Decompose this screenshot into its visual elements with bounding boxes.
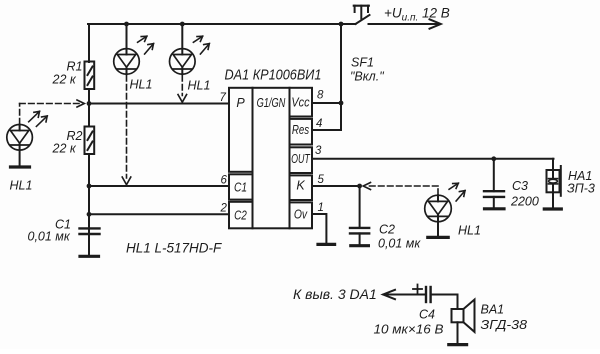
wire left rail down to R1 [88, 24, 90, 62]
svg-text:2: 2 [220, 203, 228, 215]
IC internal labels [234, 96, 311, 223]
svg-text:P: P [236, 96, 245, 110]
arrow to pin 3 DA1 (bottom note) [383, 290, 425, 299]
svg-text:0,01 мк: 0,01 мк [28, 230, 71, 244]
svg-text:R1: R1 [67, 60, 83, 74]
emission arrows HL1 A [138, 36, 154, 54]
emission arrows HL1 left [29, 111, 48, 126]
wire C4 to speaker [431, 295, 458, 310]
svg-text:G1/GN: G1/GN [257, 97, 286, 111]
pin field K [290, 175, 313, 200]
svg-text:Vcc: Vcc [291, 96, 309, 110]
pin field P [229, 88, 253, 172]
node pin3/C3 junction [491, 156, 496, 161]
wire node to R2 [88, 104, 90, 127]
resistor R2 [85, 127, 95, 155]
emission arrows HL1 B [193, 36, 209, 54]
ground BA1 [449, 343, 467, 346]
capacitor C1 [80, 228, 100, 234]
wire top supply rail [88, 23, 356, 25]
capacitor C2 [350, 186, 369, 245]
svg-text:SF1: SF1 [351, 56, 374, 70]
wire pin 1 [312, 214, 326, 243]
svg-text:4: 4 [316, 118, 322, 130]
svg-text:OUT: OUT [291, 153, 311, 167]
ground HL1 left [11, 165, 30, 168]
wire pin 7 [89, 103, 229, 105]
svg-text:C4: C4 [419, 308, 435, 322]
dashed optic arrow HL1 A down to pin6 wire [122, 76, 131, 185]
main field G1/GN [253, 88, 290, 229]
svg-text:+Uи.п. 12 В: +Uи.п. 12 В [384, 6, 450, 24]
wire pin 2 [89, 213, 229, 215]
wire SF1 vertical to pins 8,4 [340, 24, 342, 130]
wire pin 6 [89, 185, 229, 187]
switch SF1 push-button [354, 6, 370, 24]
ground pin 1 [318, 243, 335, 246]
svg-text:HL1: HL1 [458, 224, 481, 238]
svg-text:HL1: HL1 [188, 79, 211, 93]
LED HL1 A (x=126) [114, 24, 140, 74]
node pin2 junction [87, 212, 92, 217]
svg-text:2200: 2200 [510, 195, 539, 209]
value label R1 [10, 56, 595, 337]
svg-text:C2: C2 [234, 210, 247, 223]
op-amp U1: IC DA1 KR1006VI1 timer [229, 88, 312, 229]
dashed optic arrow from HL1 left to node [20, 100, 85, 124]
ground HL1 right [428, 236, 448, 239]
dashed optic arrow HL1 B down to pin7 wire [178, 76, 187, 103]
ground HA1 [544, 207, 561, 210]
wire C1 to ground [88, 234, 90, 255]
svg-text:5: 5 [318, 174, 325, 186]
svg-text:7: 7 [220, 92, 227, 104]
node pin6 junction [87, 184, 92, 189]
svg-text:BA1: BA1 [481, 303, 505, 317]
buzzer HA1 piezo [547, 159, 561, 208]
dashed optic arrow from HL1 right to pin5 node [363, 183, 438, 195]
svg-text:0,01 мк: 0,01 мк [378, 237, 421, 251]
svg-text:DA1 КР1006ВИ1: DA1 КР1006ВИ1 [225, 67, 322, 83]
pin field C2 [229, 202, 253, 229]
svg-text:6: 6 [221, 175, 228, 187]
pin numbers [220, 90, 325, 215]
plus sign C4 [413, 285, 422, 294]
svg-text:К выв. 3 DA1: К выв. 3 DA1 [293, 286, 377, 302]
resistor R1 [85, 62, 95, 90]
svg-text:Res: Res [292, 124, 310, 137]
capacitor C4 polar [426, 287, 431, 302]
ground C2 [351, 244, 369, 247]
svg-text:22 к: 22 к [52, 142, 77, 156]
pin field OUT [290, 147, 313, 173]
speaker BA1 [452, 300, 475, 344]
svg-text:HL1: HL1 [10, 179, 33, 193]
capacitor C3 [484, 159, 504, 208]
svg-text:10 мк×16 В: 10 мк×16 В [374, 323, 444, 337]
node R1/R2 junction [87, 101, 92, 106]
LED HL1 photodetector left [7, 125, 33, 167]
power arrow +U supply [369, 19, 441, 28]
svg-text:"Вкл.": "Вкл." [350, 70, 384, 84]
pin field Res [290, 119, 313, 145]
svg-text:8: 8 [317, 90, 324, 102]
wire pin 5 [312, 185, 360, 187]
emission arrows HL1 right [449, 183, 465, 201]
svg-text:HL1 L-517HD-F: HL1 L-517HD-F [126, 241, 222, 256]
pin field Vcc [290, 88, 313, 117]
LED HL1 right [425, 195, 452, 236]
svg-text:1: 1 [318, 202, 324, 214]
node rail/SF1 junction [339, 22, 344, 27]
ground C3 [485, 207, 505, 210]
node junction LED A on rail [124, 22, 129, 27]
node pin5/C2 junction [357, 184, 362, 189]
svg-text:HL1: HL1 [130, 78, 153, 92]
node pin8 junction [339, 101, 344, 106]
pin field C1 [229, 174, 253, 199]
svg-text:3: 3 [315, 145, 322, 157]
pin field Ov [290, 202, 313, 228]
svg-text:C2: C2 [379, 223, 395, 237]
ground C1 [80, 255, 99, 258]
svg-text:ЗП-3: ЗП-3 [567, 182, 595, 196]
wire pin 8 [312, 102, 341, 104]
svg-text:22 к: 22 к [52, 73, 77, 87]
svg-text:ЗГД-38: ЗГД-38 [481, 318, 528, 332]
svg-text:C3: C3 [512, 179, 528, 193]
node junction LED B on rail [180, 22, 185, 27]
LED HL1 B (x=182) [170, 24, 196, 74]
svg-text:C1: C1 [234, 182, 247, 195]
svg-text:Ov: Ov [294, 209, 308, 222]
wire pin 3 [312, 158, 554, 160]
wire pin 4 [312, 129, 341, 131]
wire R1 to node [88, 89, 90, 104]
wire R2 down / left rail [88, 154, 90, 234]
svg-text:K: K [296, 179, 305, 193]
